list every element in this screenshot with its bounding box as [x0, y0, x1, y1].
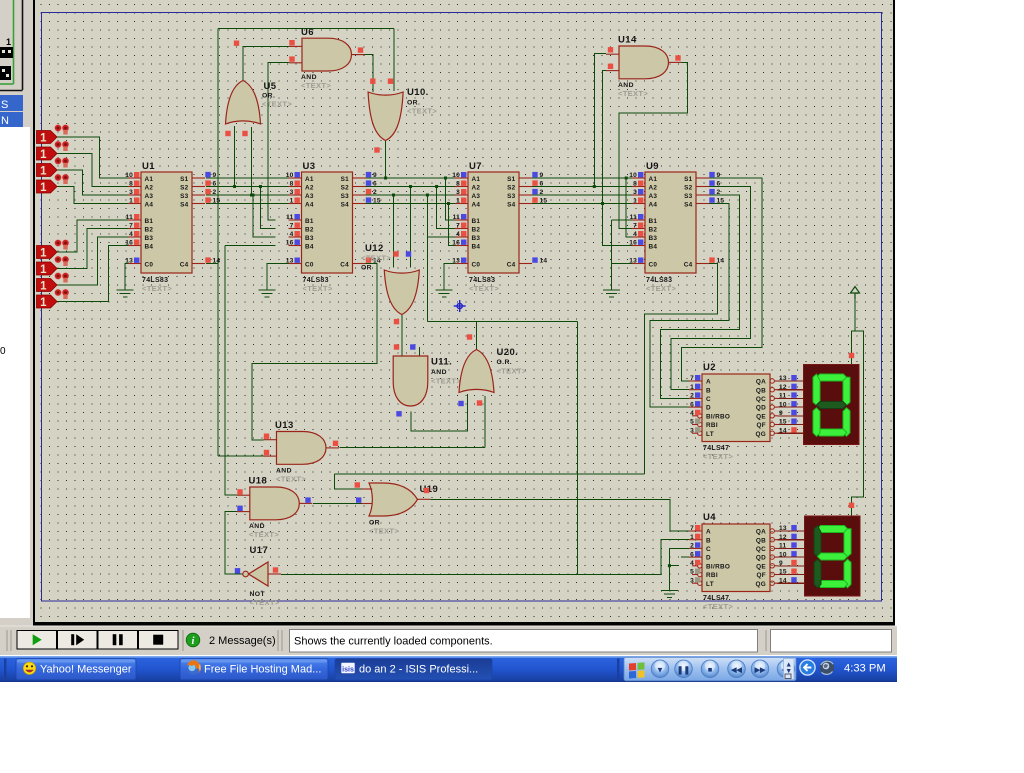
svg-text:6: 6 [690, 551, 694, 558]
svg-text:7: 7 [633, 223, 637, 230]
svg-text:❚❚: ❚❚ [677, 665, 690, 675]
ground U1.C0 [117, 290, 134, 297]
wire U5 output to U6.in1 [243, 46, 289, 80]
svg-text:13: 13 [125, 258, 133, 265]
gate U14 AND [606, 46, 682, 79]
svg-text:1: 1 [40, 149, 47, 161]
gate U13 AND [264, 432, 340, 465]
wire bus U1.S to U3.A [206, 177, 289, 179]
svg-text:1: 1 [633, 198, 637, 205]
svg-text:14: 14 [717, 258, 725, 265]
left panel (partial Proteus object selector) [0, 0, 33, 626]
wire U14.in1 from S2 row [594, 53, 606, 186]
svg-text:AND: AND [301, 74, 317, 81]
svg-text:7: 7 [690, 525, 694, 532]
svg-text:16: 16 [629, 240, 637, 247]
wire top horizontal net [218, 28, 394, 30]
svg-text:13: 13 [779, 525, 787, 532]
svg-text:15: 15 [213, 198, 221, 205]
svg-text:74LS83: 74LS83 [303, 277, 329, 284]
svg-text:3: 3 [690, 577, 694, 584]
svg-text:15: 15 [540, 198, 548, 205]
svg-text:▼: ▼ [656, 665, 664, 674]
svg-text:74LS47: 74LS47 [703, 595, 729, 602]
svg-text:U17: U17 [250, 545, 269, 556]
svg-text:<TEXT>: <TEXT> [469, 284, 499, 293]
wire U3.C0 to ground [267, 264, 289, 290]
svg-text:13: 13 [286, 258, 294, 265]
wire U9.S4 to U2.D [650, 204, 729, 408]
svg-text:15: 15 [373, 198, 381, 205]
wire U5 inputs from S-bus [234, 126, 236, 187]
svg-text:Shows the currently loaded com: Shows the currently loaded components. [294, 636, 493, 648]
wire U19 output to U4.A [431, 499, 690, 531]
svg-text:<TEXT>: <TEXT> [262, 100, 292, 109]
svg-text:3: 3 [290, 189, 294, 196]
svg-text:12: 12 [779, 384, 787, 391]
svg-text:13: 13 [629, 258, 637, 265]
svg-text:<TEXT>: <TEXT> [646, 284, 676, 293]
logic state SW2 [37, 141, 70, 161]
svg-text:6: 6 [690, 401, 694, 408]
gate U12 OR (down) [384, 270, 419, 315]
svg-text:U13: U13 [275, 420, 294, 431]
svg-text:1: 1 [6, 37, 11, 47]
svg-text:3: 3 [129, 189, 133, 196]
svg-text:1: 1 [290, 198, 294, 205]
wire U9.S2 to U2.B [671, 187, 751, 390]
svg-text:16: 16 [452, 240, 460, 247]
svg-text:U4: U4 [703, 512, 716, 523]
svg-text:10: 10 [286, 172, 294, 179]
svg-text:5: 5 [690, 569, 694, 576]
svg-text:13: 13 [779, 375, 787, 382]
wire U6 output to U10.in1 [352, 55, 374, 92]
gate U6 AND [289, 38, 365, 71]
svg-text:i: i [192, 636, 195, 647]
IC U3 74LS83 4-bit adder [289, 161, 366, 293]
svg-text:1: 1 [40, 182, 47, 194]
IC U9 74LS83 4-bit adder [632, 161, 709, 293]
svg-text:U1: U1 [142, 161, 155, 172]
wire bus U7.S to U9.A [532, 177, 633, 179]
svg-text:1: 1 [690, 384, 694, 391]
svg-text:1: 1 [40, 248, 47, 260]
wire U11.in2 stub [418, 347, 420, 356]
wire bus U3.S to U7.A [365, 177, 455, 179]
simulation toolbar [0, 626, 897, 655]
svg-text:NOT: NOT [250, 591, 266, 598]
wire U10 output down to S1 row [385, 137, 387, 178]
svg-text:14: 14 [540, 258, 548, 265]
power terminal (arrow) [851, 287, 860, 300]
ground U4 [661, 591, 678, 598]
svg-text:1: 1 [40, 297, 47, 309]
svg-text:S: S [1, 99, 8, 111]
svg-text:10: 10 [125, 172, 133, 179]
svg-text:1: 1 [40, 281, 47, 293]
svg-text:AND: AND [249, 523, 265, 530]
svg-text:11: 11 [630, 214, 638, 221]
svg-text:U2: U2 [703, 362, 716, 373]
svg-text:9: 9 [540, 172, 544, 179]
display DS2 7-segment showing 3 [805, 516, 861, 596]
svg-text:U20.: U20. [497, 347, 519, 358]
svg-text:8: 8 [129, 181, 133, 188]
wire U18 output to U19.in2 [313, 502, 362, 504]
wire U4.C + BI/RBO to ground [669, 548, 689, 590]
svg-text:3: 3 [633, 189, 637, 196]
svg-text:11: 11 [453, 214, 461, 221]
svg-text:<TEXT>: <TEXT> [303, 284, 333, 293]
svg-text:<TEXT>: <TEXT> [142, 284, 172, 293]
wire staircase to U7.B1 [446, 178, 456, 220]
wire U6.in2 to U3.B1 [268, 63, 289, 220]
svg-text:2: 2 [540, 189, 544, 196]
svg-text:<TEXT>: <TEXT> [431, 377, 461, 386]
node origin marker [454, 300, 466, 312]
wire staircase to U7.B2 [437, 187, 455, 229]
logic state SW4 [37, 174, 70, 194]
wire U3.C4 to U13.in1 [252, 264, 377, 441]
logic state SW3 [37, 157, 70, 177]
svg-text:U14: U14 [618, 35, 637, 46]
wire U2 outputs to display DS1 [778, 380, 804, 382]
wire U9.C4 to U19.in1 net [645, 264, 718, 474]
logic state SW7 [37, 272, 70, 292]
svg-text:OR: OR [361, 265, 372, 272]
svg-text:<TEXT>: <TEXT> [276, 475, 306, 484]
svg-text:◀◀: ◀◀ [730, 667, 742, 674]
svg-text:<TEXT>: <TEXT> [361, 254, 391, 263]
svg-text:2: 2 [213, 189, 217, 196]
svg-text:74LS83: 74LS83 [646, 277, 672, 284]
logic state SW1 [37, 124, 70, 144]
svg-text:10: 10 [779, 551, 787, 558]
wire staircase to U7.B3 [427, 236, 455, 238]
svg-text:<TEXT>: <TEXT> [703, 602, 733, 611]
svg-text:2: 2 [690, 393, 694, 400]
svg-text:AND: AND [618, 82, 634, 89]
svg-text:Yahoo! Messenger: Yahoo! Messenger [40, 663, 132, 675]
svg-text:U7: U7 [469, 161, 482, 172]
svg-text:2: 2 [717, 189, 721, 196]
svg-text:6: 6 [213, 181, 217, 188]
IC U7 74LS83 4-bit adder [455, 161, 532, 293]
svg-text:14: 14 [779, 427, 787, 434]
svg-text:9: 9 [717, 172, 721, 179]
wire U1.C0 to ground [125, 264, 128, 290]
svg-text:14: 14 [213, 258, 221, 265]
wire U7.C0 to ground [444, 264, 455, 290]
svg-text:4: 4 [633, 231, 637, 238]
svg-text:2: 2 [690, 543, 694, 550]
display DS1 7-segment showing 0 [804, 365, 860, 445]
wire staircase to U7.B4 [449, 204, 456, 246]
svg-text:▶▶: ▶▶ [754, 667, 766, 674]
wire U9.S3 to U2.C [660, 195, 739, 398]
svg-text:U9: U9 [646, 161, 659, 172]
wire U12.in2 from S2 row [410, 187, 412, 268]
wire U17 input line to U4.B [281, 540, 689, 575]
svg-text:U3: U3 [303, 161, 316, 172]
svg-text:<TEXT>: <TEXT> [618, 89, 648, 98]
gate U17 NOT (left) [243, 562, 281, 586]
svg-text:14: 14 [779, 577, 787, 584]
svg-text:4:33 PM: 4:33 PM [844, 663, 886, 675]
gate U19 OR [362, 483, 431, 516]
wire U17 output to U18.in2 [225, 512, 244, 574]
logic state SW8 [37, 289, 70, 309]
svg-text:2 Message(s): 2 Message(s) [209, 635, 276, 647]
svg-text:1: 1 [129, 198, 133, 205]
wire U13 output to U20.in2 [340, 447, 486, 449]
svg-text:1: 1 [690, 534, 694, 541]
svg-text:■: ■ [708, 665, 713, 674]
svg-text:<TEXT>: <TEXT> [497, 367, 527, 376]
svg-text:4: 4 [290, 231, 294, 238]
svg-text:9: 9 [213, 172, 217, 179]
svg-text:7: 7 [690, 375, 694, 382]
wire U9.B1/C0 to ground trunk [612, 219, 632, 221]
gate U11 AND (down) [393, 356, 428, 406]
svg-text:10: 10 [629, 172, 637, 179]
ground U9.C0 [603, 290, 620, 297]
wire staircase to U3.B3 [253, 195, 276, 237]
gate U18 AND [237, 487, 312, 520]
svg-text:isis: isis [342, 666, 354, 673]
svg-text:6: 6 [717, 181, 721, 188]
svg-text:U10.: U10. [407, 87, 429, 98]
svg-text:U12: U12 [365, 243, 384, 254]
svg-text:8: 8 [456, 181, 460, 188]
logic state SW5 [37, 239, 70, 259]
wire logic-state group1 to U1 A inputs [57, 137, 129, 178]
svg-text:1: 1 [456, 198, 460, 205]
wire U4 outputs to display DS2 [778, 530, 805, 532]
svg-text:4: 4 [129, 231, 133, 238]
IC U2 74LS47 BCD decoder [689, 362, 778, 461]
svg-text:74LS83: 74LS83 [142, 277, 168, 284]
svg-text:5: 5 [690, 419, 694, 426]
svg-text:8: 8 [290, 181, 294, 188]
ground U7.C0 [436, 290, 453, 297]
svg-text:4: 4 [690, 560, 694, 567]
svg-text:<TEXT>: <TEXT> [250, 598, 280, 607]
svg-text:2: 2 [373, 189, 377, 196]
svg-text:U6: U6 [301, 27, 314, 38]
gate U10 OR (down) [368, 92, 403, 141]
svg-text:10: 10 [452, 172, 460, 179]
IC U4 74LS47 BCD decoder [689, 512, 778, 611]
svg-text:1: 1 [40, 133, 47, 145]
svg-text:12: 12 [779, 534, 787, 541]
wire power to displays anodes [852, 299, 864, 516]
wire logic-state group2 to U1 B inputs [57, 220, 129, 252]
svg-text:4: 4 [456, 231, 460, 238]
svg-text:U11.: U11. [431, 357, 452, 368]
logic state SW6 [37, 256, 70, 276]
svg-text:U18: U18 [249, 476, 268, 487]
svg-text:Free File Hosting Mad...: Free File Hosting Mad... [204, 663, 321, 675]
svg-text:AND: AND [276, 468, 292, 475]
svg-text:9: 9 [779, 560, 783, 567]
svg-text:7: 7 [290, 223, 294, 230]
svg-text:11: 11 [779, 393, 787, 400]
svg-text:<TEXT>: <TEXT> [301, 81, 331, 90]
wire staircase to U3.B2 [261, 187, 276, 229]
svg-text:74LS47: 74LS47 [703, 445, 729, 452]
svg-text:8: 8 [633, 181, 637, 188]
wire U12.in1 from S3 row [393, 195, 395, 268]
Windows XP taskbar [0, 656, 897, 682]
svg-text:do an 2 - ISIS Professi...: do an 2 - ISIS Professi... [359, 663, 478, 675]
svg-text:<TEXT>: <TEXT> [369, 527, 399, 536]
svg-text:1: 1 [40, 264, 47, 276]
svg-text:7: 7 [129, 223, 133, 230]
wire staircase to U9.B3 [626, 178, 632, 237]
wire U11 output to U20.in1 [411, 394, 468, 431]
svg-text:15: 15 [779, 419, 787, 426]
wire U20 output trunk to U17 line [476, 321, 478, 349]
svg-text:10: 10 [779, 401, 787, 408]
svg-text:15: 15 [779, 569, 787, 576]
svg-text:15: 15 [717, 198, 725, 205]
svg-text:16: 16 [125, 240, 133, 247]
wire vertical above U20 output joining U7.B3 [426, 195, 428, 321]
svg-text:U5: U5 [264, 81, 277, 92]
svg-text:<TEXT>: <TEXT> [407, 107, 437, 116]
svg-text:7: 7 [456, 223, 460, 230]
svg-text:74LS83: 74LS83 [469, 277, 495, 284]
svg-text:0: 0 [0, 346, 6, 357]
wire U14.in2 from S4 row [603, 71, 607, 204]
wire U12 output into U11.in1 [401, 313, 403, 357]
svg-text:O.R.: O.R. [497, 359, 513, 366]
svg-text:11: 11 [126, 214, 134, 221]
svg-text:<TEXT>: <TEXT> [249, 530, 279, 539]
wire U4.D stub [681, 556, 689, 558]
svg-text:6: 6 [373, 181, 377, 188]
gate U20 OR (up) [459, 350, 494, 393]
svg-text:11: 11 [286, 214, 294, 221]
svg-text:AND: AND [431, 369, 447, 376]
svg-text:13: 13 [452, 258, 460, 265]
svg-text:4: 4 [690, 410, 694, 417]
wire U14 output to U9.B2 [619, 63, 688, 229]
svg-text:1: 1 [40, 166, 47, 178]
svg-text:16: 16 [286, 240, 294, 247]
gate U5 OR (up) [226, 81, 261, 125]
wire staircase to U9.B4 [603, 204, 633, 246]
svg-text:3: 3 [456, 189, 460, 196]
wire U3.B4 / U18.in1 trunk [225, 245, 276, 247]
wire net U1.C4 trunk (to top AND / U13.in2) [206, 263, 218, 265]
svg-text:6: 6 [540, 181, 544, 188]
svg-text:9: 9 [373, 172, 377, 179]
svg-text:3: 3 [690, 427, 694, 434]
svg-text:11: 11 [779, 543, 787, 550]
svg-text:OR.: OR. [262, 93, 275, 100]
svg-text:<TEXT>: <TEXT> [703, 452, 733, 461]
IC U1 74LS83 4-bit adder [128, 161, 205, 293]
svg-text:N: N [1, 115, 9, 127]
ground U3.C0 [259, 290, 276, 297]
svg-text:9: 9 [779, 410, 783, 417]
svg-text:OR: OR [369, 520, 380, 527]
svg-text:OR.: OR. [407, 100, 420, 107]
wire U9.S1 to U2.A [681, 178, 762, 381]
